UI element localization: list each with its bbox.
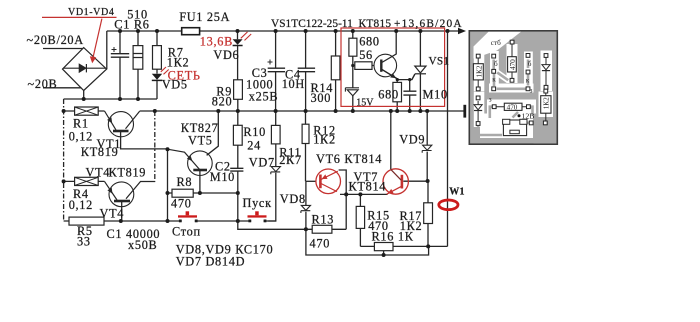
svg-text:Стоп: Стоп — [172, 225, 201, 239]
wire 56 to KT815 base — [353, 65, 374, 67]
wire R11-VD7 column — [268, 111, 276, 221]
svg-text:1К2: 1К2 — [313, 132, 336, 146]
wire VT1 emitter to VT5 base node — [121, 132, 168, 149]
svg-text:VT5: VT5 — [188, 133, 213, 147]
wire R14 column — [335, 31, 337, 111]
wire bridge bottom lead — [83, 91, 85, 100]
PCB layout board — [469, 31, 557, 144]
wire R15 column — [359, 194, 361, 246]
zener VD8 — [301, 205, 311, 213]
svg-text:КТ814: КТ814 — [349, 179, 387, 193]
transistor VT1 — [105, 111, 140, 137]
wire VD9 column — [426, 111, 428, 181]
svg-text:24: 24 — [247, 138, 261, 152]
svg-text:56: 56 — [359, 48, 373, 62]
wire R12 column — [305, 111, 307, 181]
svg-text:КТ819: КТ819 — [109, 165, 147, 179]
PCB resistor 1K2 left — [473, 64, 483, 80]
svg-text:VD7: VD7 — [249, 155, 275, 169]
wire R6 column — [137, 31, 139, 99]
svg-text:VS1TC122-25-11: VS1TC122-25-11 — [271, 18, 353, 30]
wire VT7 collector — [390, 111, 392, 169]
wire C4 column — [305, 31, 307, 111]
arrow at +13.6V output — [458, 28, 466, 34]
svg-text:R8: R8 — [177, 175, 193, 189]
wire VT6 emitter line y194.4 — [340, 193, 388, 195]
svg-text:VD7 D814D: VD7 D814D — [176, 255, 246, 269]
svg-text:VS1: VS1 — [429, 56, 450, 68]
svg-text:з: з — [489, 96, 492, 104]
wire R4 row — [64, 180, 105, 182]
svg-text:680: 680 — [359, 35, 380, 49]
transistor VT4 — [105, 181, 156, 206]
svg-text:R10: R10 — [243, 125, 266, 139]
wire R17 column — [427, 181, 429, 246]
wire C1 column — [119, 31, 121, 99]
zener VD7 — [271, 167, 281, 175]
resistor R8 — [172, 189, 193, 197]
svg-text:2К7: 2К7 — [279, 153, 302, 167]
capacitor C2 — [230, 168, 243, 171]
resistor R12 — [302, 124, 309, 143]
wire VS1 column — [419, 31, 421, 111]
svg-text:470: 470 — [171, 196, 192, 210]
resistor R14 — [331, 56, 340, 80]
svg-text:820: 820 — [212, 94, 233, 108]
resistor R16 — [374, 243, 393, 251]
wire R1 row — [64, 110, 105, 112]
svg-text:1К2: 1К2 — [167, 55, 190, 69]
PCB copper traces — [478, 60, 543, 136]
resistor 56 — [355, 62, 372, 70]
svg-text:стб: стб — [491, 39, 501, 47]
zener 15V — [345, 88, 359, 96]
pushbutton Pusk — [248, 211, 267, 222]
svg-text:W1: W1 — [449, 186, 465, 197]
svg-text:VT4: VT4 — [100, 206, 125, 220]
zener VD9 — [422, 145, 432, 153]
fuse FU1 — [182, 28, 200, 35]
resistor R10 — [233, 125, 242, 145]
resistor R11 — [271, 125, 280, 143]
wire VT5 collector — [207, 111, 219, 155]
resistor R7 — [153, 46, 162, 70]
svg-text:470: 470 — [507, 103, 518, 111]
wire top bus +13.6V — [107, 30, 460, 32]
svg-text:з: з — [530, 87, 533, 95]
svg-text:470: 470 — [310, 237, 331, 251]
svg-text:300: 300 — [311, 91, 332, 105]
transistor VT6 — [316, 169, 341, 194]
svg-text:б: б — [528, 60, 532, 68]
red frame around VS1 unit — [341, 28, 445, 106]
capacitor C1 — [111, 47, 129, 57]
wire R16 row — [360, 245, 447, 247]
thyristor VS1 — [412, 66, 426, 80]
capacitor C3 — [268, 60, 286, 72]
svg-text:R1: R1 — [73, 117, 89, 131]
wire 680b column — [396, 80, 398, 111]
wire R7-VD5 column — [156, 31, 158, 99]
svg-text:VD8: VD8 — [280, 192, 306, 206]
wire left rail dash-dot — [63, 99, 65, 221]
wire VD8 column — [306, 181, 429, 255]
fusible resistor R4 — [75, 177, 99, 185]
wire bottom bus y221 — [64, 220, 277, 222]
wire KT815 emitter to node — [382, 70, 398, 80]
wire VT4 emitter — [121, 202, 123, 222]
wire VT6 base — [306, 180, 317, 182]
PCB resistor 1K2 right — [541, 96, 551, 114]
wire bus y111 — [140, 110, 464, 112]
svg-text:х25В: х25В — [249, 89, 278, 103]
PCB darker bottom-right block — [534, 126, 557, 144]
resistor R17 — [424, 203, 433, 224]
wire negative bus y99 — [64, 98, 157, 100]
wire VT5 emitter — [199, 171, 201, 194]
svg-text:0,12: 0,12 — [69, 198, 93, 212]
resistor 680 b — [393, 82, 402, 101]
svg-text:КТ819: КТ819 — [81, 145, 119, 159]
wire R16 wiper stub — [383, 251, 385, 255]
svg-text:М10: М10 — [210, 170, 235, 184]
wire VD6-R9-R10-C2 column — [237, 31, 239, 221]
svg-text:VD1-VD4: VD1-VD4 — [68, 7, 114, 18]
svg-text:10Н: 10Н — [282, 77, 305, 91]
bridge rectifier VD1-VD4 — [63, 48, 107, 91]
red pointer VD1-VD4 — [42, 17, 117, 63]
svg-text:б: б — [494, 60, 498, 68]
winding W1 — [439, 200, 458, 210]
wire M10 column — [409, 80, 411, 111]
PCB transistor footprint — [503, 120, 526, 136]
capacitor C4 — [298, 68, 315, 72]
wire bridge right lead — [106, 31, 108, 69]
wire node y79.6 — [397, 74, 415, 79]
wire VT7 base to node — [403, 180, 427, 182]
resistor R6 — [133, 46, 143, 70]
svg-text:VT4: VT4 — [86, 165, 111, 179]
svg-text:КТ815: КТ815 — [359, 18, 392, 30]
svg-text:13,6В: 13,6В — [200, 34, 233, 48]
svg-text:470: 470 — [509, 59, 517, 70]
resistor R9 — [234, 80, 243, 100]
svg-text:к: к — [526, 76, 530, 84]
wire x167.5 column — [167, 149, 169, 221]
svg-text:1К2: 1К2 — [543, 97, 551, 109]
svg-text:1К2: 1К2 — [475, 65, 483, 77]
wire W1 column — [447, 31, 449, 246]
PCB resistor 470 vertical — [508, 57, 517, 72]
svg-text:FU1 25A: FU1 25A — [179, 10, 230, 24]
svg-text:х50В: х50В — [128, 238, 157, 252]
svg-text:C1 R6: C1 R6 — [114, 18, 149, 32]
capacitor M10 — [403, 91, 416, 95]
resistor R5 — [69, 217, 104, 225]
resistor R15 — [356, 206, 364, 228]
resistor R13 — [312, 225, 332, 233]
svg-text:R16 1К: R16 1К — [372, 229, 414, 243]
wire R13 row — [238, 221, 346, 229]
transistor VT7 — [383, 169, 408, 194]
svg-text:680: 680 — [378, 88, 399, 102]
wire AC input bottom — [43, 87, 81, 89]
pushbutton Stop — [178, 211, 198, 222]
wire 680a-56-15V column — [352, 31, 354, 111]
PCB diode right — [542, 65, 550, 70]
svg-text:15V: 15V — [356, 98, 374, 109]
PCB labels — [489, 39, 535, 121]
svg-text:Пуск: Пуск — [243, 196, 272, 210]
wire mid rail x155 dash-dot — [154, 111, 156, 181]
LED VD6 — [233, 32, 252, 46]
svg-text:~20В/20А: ~20В/20А — [27, 33, 84, 47]
wire VT6 top lead down to R13 — [339, 170, 347, 229]
svg-text:M10: M10 — [423, 88, 448, 102]
svg-text:+13,6В/20А: +13,6В/20А — [394, 18, 463, 30]
svg-text:~20В: ~20В — [28, 77, 58, 91]
output terminal bar — [463, 105, 466, 118]
svg-text:0,12: 0,12 — [69, 130, 93, 144]
svg-text:33: 33 — [77, 234, 91, 248]
svg-text:12В: 12В — [522, 112, 535, 121]
wire R8 row — [168, 192, 238, 194]
svg-text:VT6 КТ814: VT6 КТ814 — [316, 152, 382, 166]
wire AC input top — [43, 48, 83, 50]
PCB pads — [476, 40, 548, 125]
fusible resistor R1 — [75, 107, 99, 115]
LED VD5 — [152, 67, 169, 80]
PCB diode left — [474, 105, 482, 110]
transistor KT815 — [374, 54, 397, 79]
svg-text:VD5: VD5 — [162, 78, 188, 92]
wire KT815 collector — [382, 31, 396, 63]
PCB resistor 470 horizontal — [504, 103, 522, 110]
resistor 680 a — [349, 38, 357, 56]
wire C3 column — [275, 31, 277, 111]
svg-text:VD6: VD6 — [213, 48, 239, 62]
transistor VT5 — [168, 149, 213, 175]
svg-text:VD9: VD9 — [399, 132, 425, 146]
svg-text:к: к — [492, 76, 496, 84]
PCB component leads — [478, 44, 546, 122]
svg-text:R13: R13 — [312, 213, 335, 227]
